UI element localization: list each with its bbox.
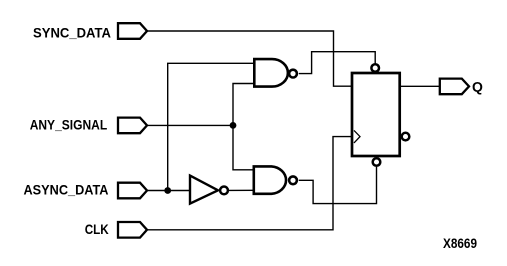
flip-flop clock chevron (354, 130, 360, 143)
svg-text:Q: Q (472, 78, 483, 94)
wire ANY_SIGNAL horizontal (147, 124, 233, 126)
wire CLK to flip-flop clock input (147, 137, 352, 230)
svg-text:SYNC_DATA: SYNC_DATA (33, 24, 111, 40)
wire ANY_SIGNAL to NAND2 upper input (233, 125, 255, 169)
svg-text:CLK: CLK (85, 221, 109, 237)
wire NAND1 output to flip-flop preset bubble (299, 52, 375, 74)
wire inverter to NAND2 lower input (229, 189, 255, 191)
input pin CLK (118, 222, 147, 238)
svg-text:ASYNC_DATA: ASYNC_DATA (24, 181, 109, 197)
output pin Q (440, 79, 469, 95)
flip-flop body (352, 73, 400, 156)
flip-flop QB bubble (right) (402, 133, 410, 141)
NAND gate N2 (lower) (254, 166, 286, 193)
wire NAND2 output to flip-flop clear bubble (299, 167, 377, 204)
wire ANY_SIGNAL to NAND1 lower input (233, 84, 255, 126)
wire ASYNC_DATA to inverter (147, 190, 190, 192)
inverter gate (190, 176, 218, 204)
node junction ANY_SIGNAL (230, 122, 237, 129)
flip-flop preset bubble (top) (371, 64, 379, 72)
wire ASYNC_DATA to NAND1 upper input (168, 63, 255, 190)
svg-text:X8669: X8669 (443, 235, 477, 251)
inverter output bubble (220, 187, 228, 195)
input pin ANY_SIGNAL (118, 118, 147, 134)
wire SYNC_DATA to flip-flop D input (147, 31, 351, 86)
NAND1 output bubble (289, 70, 297, 78)
flip-flop clear bubble (bottom) (373, 158, 381, 166)
NAND gate N1 (upper) (254, 59, 288, 87)
svg-text:ANY_SIGNAL: ANY_SIGNAL (30, 116, 108, 132)
node junction ASYNC_DATA (164, 187, 171, 194)
NAND2 output bubble (289, 176, 297, 184)
input pin SYNC_DATA (118, 23, 147, 39)
wire flip-flop Q output to pin Q (400, 85, 440, 87)
input pin ASYNC_DATA (118, 183, 147, 199)
